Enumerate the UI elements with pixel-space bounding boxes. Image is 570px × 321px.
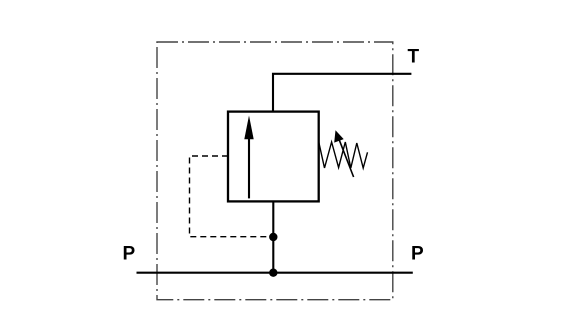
pilot line (dashed) from P node to valve left side [190,156,270,237]
wire: valve bottom to P line (vertical) [272,201,274,273]
valve body U1 (square envelope) [228,112,319,202]
junction dot (pilot tap node) [269,233,277,241]
enclosure border (dash-dot boundary box) [157,42,393,300]
flow path arrow head [244,116,253,140]
spring (zigzag, right of valve) [319,142,368,168]
junction dot (P line node) [269,269,277,277]
wire: P port line (horizontal) [137,272,413,274]
spring adjustment arrow head [334,130,344,142]
spring adjustment arrow shaft (diagonal through spring) [338,137,353,177]
svg-text:P: P [123,244,136,265]
wire: T port line (horizontal) and drop to valve top [273,74,411,112]
svg-text:P: P [411,244,424,265]
svg-text:T: T [408,46,420,67]
flow path arrow shaft (inside valve) [248,138,250,198]
